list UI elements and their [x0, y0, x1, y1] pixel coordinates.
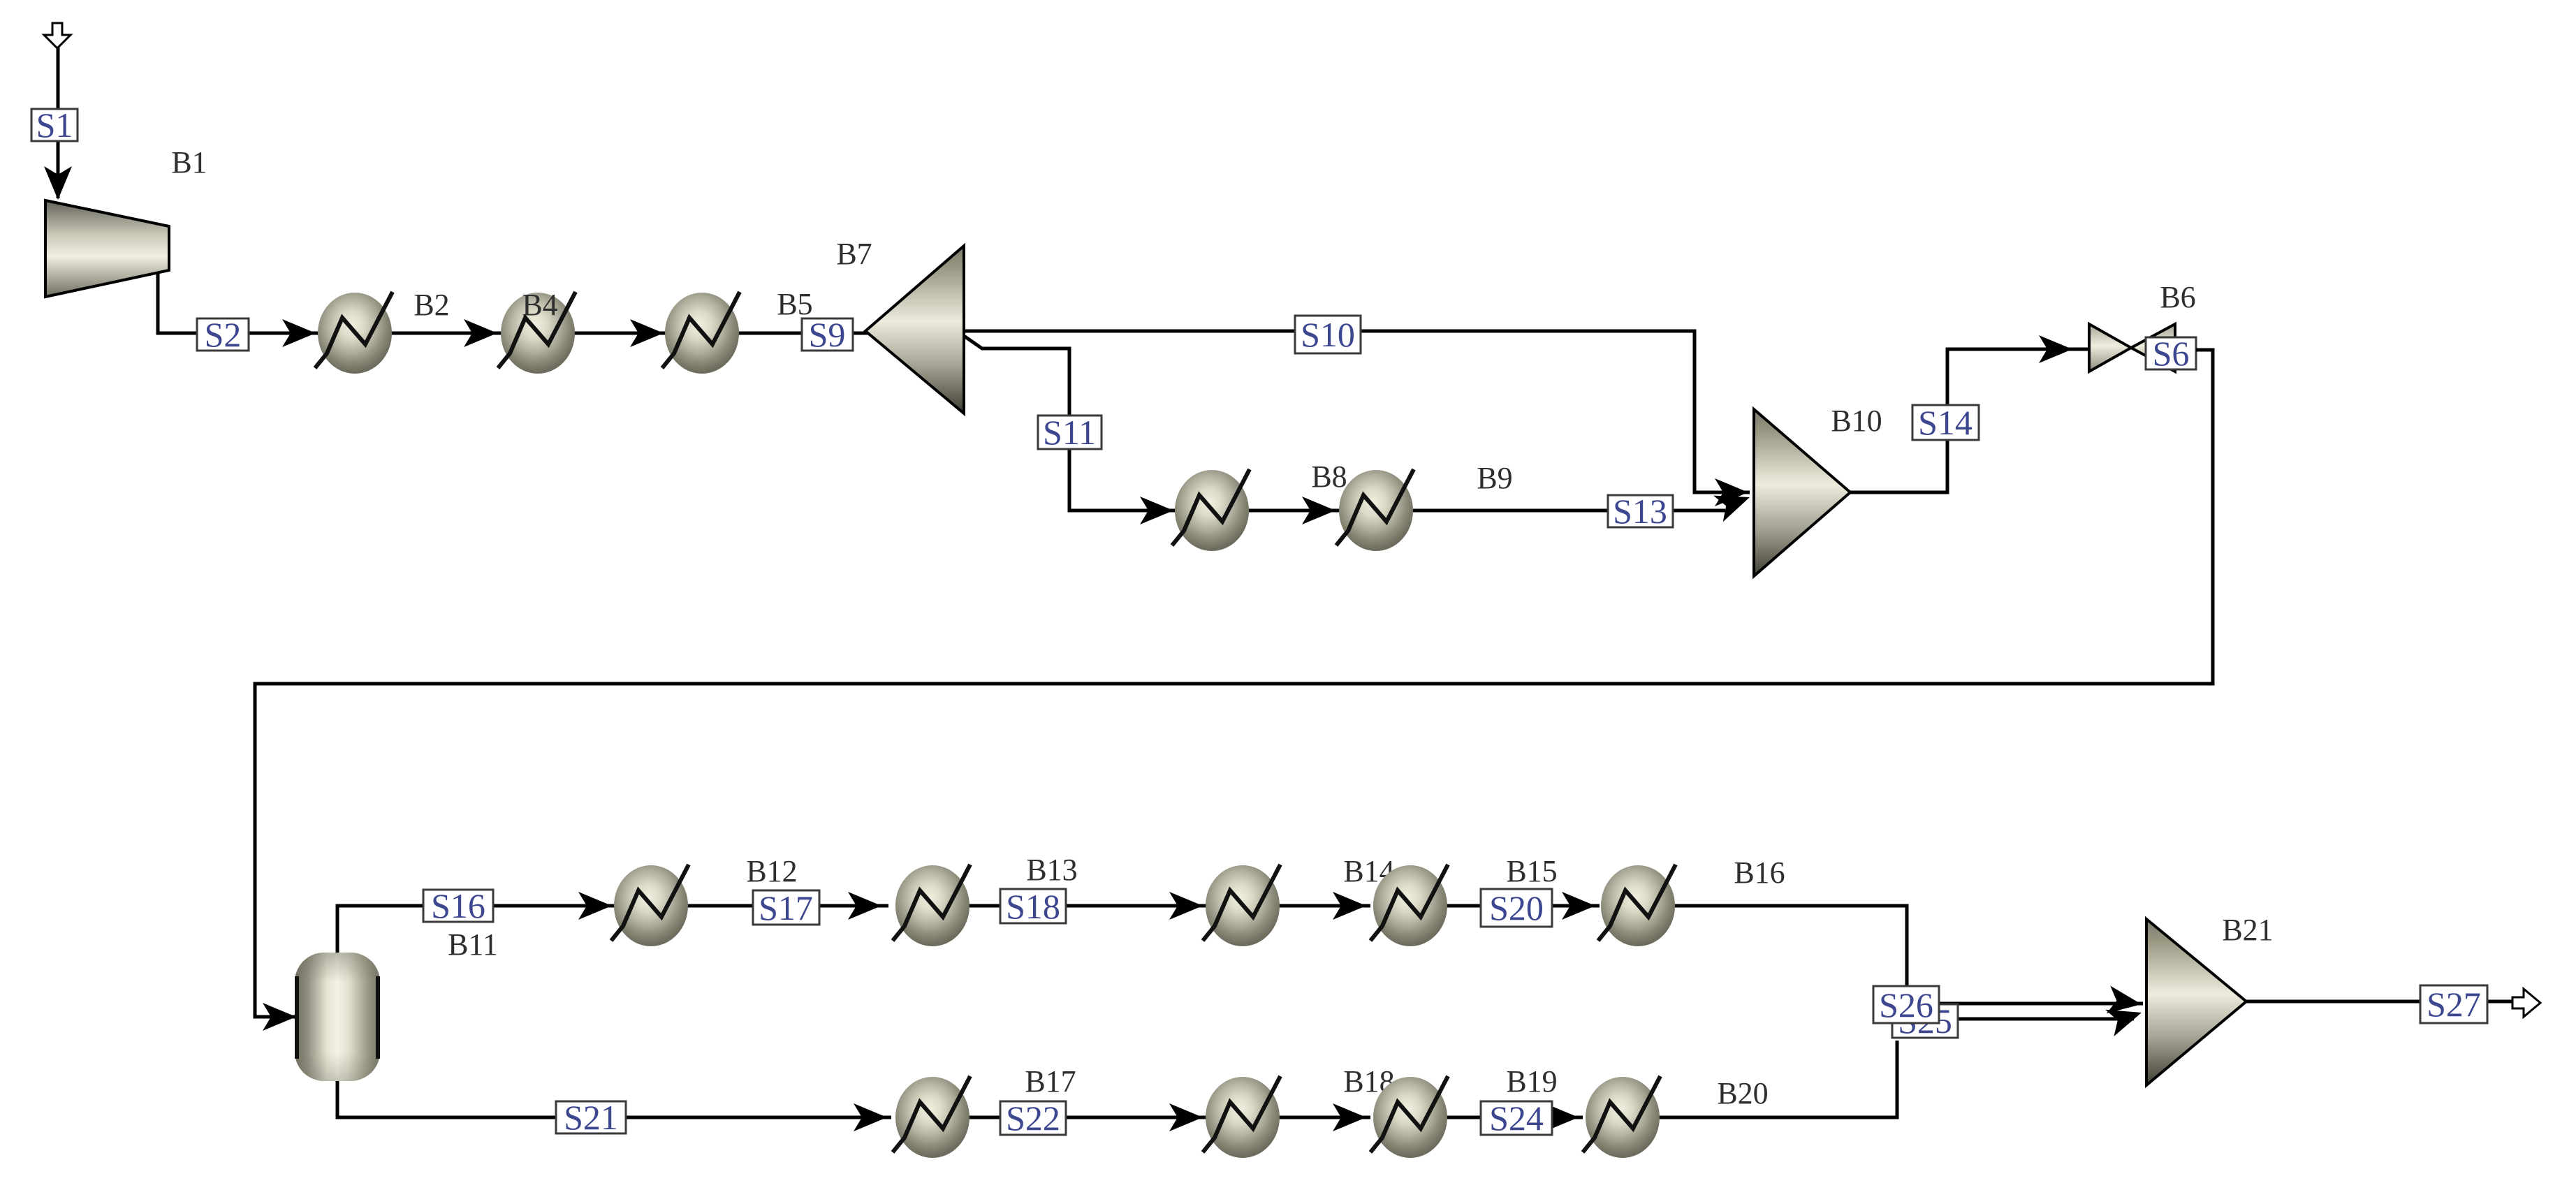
heater B13 — [893, 865, 970, 946]
arrowhead into B4 — [464, 319, 497, 347]
svg-text:B1: B1 — [171, 145, 207, 179]
wire S14 from B10 to valve B6 — [1850, 349, 2092, 492]
svg-text:B5: B5 — [777, 287, 812, 321]
wire S16 from B11 top to B12 — [337, 906, 617, 953]
stream label box S17 — [753, 890, 819, 925]
svg-text:B16: B16 — [1734, 855, 1785, 890]
stream label box S27 — [2420, 985, 2487, 1023]
mixer B21 — [2146, 919, 2246, 1085]
wire S22 from B17 to B18 — [969, 1116, 1209, 1119]
svg-text:B12: B12 — [746, 854, 797, 888]
wire S18 from B13 to B14 — [969, 904, 1209, 908]
arrowhead into B12 — [578, 892, 612, 920]
svg-text:S6: S6 — [2153, 334, 2190, 373]
svg-text:S10: S10 — [1301, 315, 1355, 354]
wire S9 from B5 to B7 — [736, 332, 868, 335]
svg-text:B4: B4 — [522, 288, 557, 322]
arrowhead into B11 — [263, 1003, 296, 1031]
wire S20 from B15 to B16 — [1447, 904, 1600, 908]
svg-text:S17: S17 — [759, 888, 813, 927]
arrowhead upper into B21 — [2107, 986, 2144, 1018]
svg-text:S21: S21 — [564, 1098, 618, 1137]
arrowhead into B19 — [1333, 1103, 1366, 1131]
stream label box S24 — [1481, 1101, 1552, 1135]
wire S1 feed line — [57, 43, 60, 198]
svg-text:B10: B10 — [1831, 404, 1882, 438]
wire S21 from B11 bottom to B17 — [337, 1081, 891, 1117]
arrowhead into B1 — [44, 166, 72, 200]
wire S6 long recycle to B11 — [255, 350, 2213, 1017]
stream label box S2 — [197, 318, 249, 351]
mixer B10 — [1754, 409, 1850, 576]
heater B19 — [1370, 1076, 1448, 1158]
arrowhead into B15 — [1333, 892, 1366, 920]
feed open arrow — [44, 23, 71, 48]
arrowhead into B9 — [1302, 497, 1335, 524]
svg-text:S9: S9 — [809, 315, 846, 354]
wire S24 from B19 to B20 — [1447, 1116, 1583, 1119]
svg-text:B17: B17 — [1025, 1064, 1076, 1099]
svg-text:S22: S22 — [1006, 1099, 1060, 1138]
arrowhead into B5 — [630, 319, 664, 347]
svg-text:B8: B8 — [1311, 460, 1347, 494]
wire S17 from B12 to B13 — [687, 904, 888, 908]
stream label box S18 — [1000, 889, 1066, 923]
arrowhead into B2 — [282, 319, 316, 347]
heater B2 — [315, 292, 393, 374]
heater B12 — [611, 865, 689, 946]
heater B5 — [662, 292, 740, 374]
heater B20 — [1583, 1076, 1660, 1158]
product open arrow — [2512, 989, 2540, 1017]
arrowhead into B14 — [1169, 892, 1203, 920]
svg-text:B19: B19 — [1506, 1064, 1557, 1099]
svg-text:S20: S20 — [1489, 888, 1544, 927]
svg-text:B20: B20 — [1717, 1076, 1768, 1110]
svg-text:B6: B6 — [2160, 280, 2195, 314]
stream label box S21 — [556, 1101, 626, 1133]
svg-text:B9: B9 — [1477, 461, 1512, 495]
heater B16 — [1598, 865, 1676, 946]
heater B9 — [1336, 469, 1414, 551]
arrowhead into B6 — [2039, 335, 2072, 363]
stream label box S26 — [1873, 986, 1939, 1023]
svg-text:B21: B21 — [2222, 913, 2273, 947]
svg-text:B13: B13 — [1026, 853, 1077, 887]
wire S25 from B20 up — [1659, 1041, 1897, 1117]
wire S13 from B9 to B10 — [1413, 509, 1725, 513]
svg-text:S16: S16 — [431, 886, 485, 925]
flash drum B11 — [295, 953, 380, 1081]
svg-text:S24: S24 — [1489, 1099, 1544, 1138]
svg-text:S2: S2 — [205, 315, 242, 354]
arrowhead S13 into B10 tilted — [1713, 484, 1755, 522]
wire B14 to B15 — [1279, 904, 1370, 908]
svg-text:B15: B15 — [1506, 854, 1557, 888]
arrowhead into B20 — [1545, 1103, 1579, 1131]
wire S11 from B7 down to B8 — [964, 336, 1179, 510]
wire S25 into B21 lower — [1949, 1018, 2134, 1021]
arrowhead into B18 — [1169, 1103, 1203, 1131]
wire S26 into B21 upper — [1935, 1002, 2143, 1006]
arrowhead lower into B21 — [2105, 999, 2146, 1036]
arrowhead into B13 — [848, 892, 881, 920]
svg-text:S27: S27 — [2427, 985, 2481, 1024]
svg-text:S26: S26 — [1879, 985, 1933, 1024]
svg-text:S14: S14 — [1918, 403, 1973, 442]
splitter B7 — [865, 246, 964, 413]
wire B8 to B9 — [1249, 509, 1341, 513]
wire B4 to B5 — [571, 332, 668, 335]
heater B8 — [1172, 469, 1250, 551]
compressor B1 — [45, 200, 169, 297]
valve B6 left cone — [2089, 324, 2131, 372]
stream label box S1 — [31, 109, 78, 141]
wire S2 from B1 to B2 — [158, 272, 321, 333]
arrowhead into B17 — [854, 1103, 887, 1131]
valve B6 right cone — [2131, 324, 2175, 372]
wire B18 to B19 — [1279, 1116, 1370, 1119]
svg-text:S18: S18 — [1006, 887, 1060, 926]
heater B18 — [1203, 1076, 1280, 1158]
stream label box S9 — [802, 318, 853, 351]
stream label box S14 — [1912, 405, 1979, 440]
svg-text:B7: B7 — [836, 237, 872, 271]
wire S10 from B7 to B10 — [964, 331, 1750, 492]
stream label box S16 — [423, 890, 493, 922]
svg-text:B11: B11 — [448, 927, 498, 962]
svg-text:B2: B2 — [414, 288, 449, 322]
stream label box S11 — [1038, 416, 1102, 449]
stream label box S10 — [1295, 316, 1361, 353]
heater B14 — [1203, 865, 1280, 946]
wire B2 to B4 — [388, 332, 504, 335]
arrowhead S10 into B10 — [1715, 478, 1748, 506]
stream label box S22 — [1000, 1101, 1066, 1135]
arrowhead into B8 — [1140, 497, 1173, 524]
svg-text:S11: S11 — [1043, 413, 1096, 452]
stream label box S25 — [1892, 1004, 1958, 1038]
heater B4 — [498, 292, 576, 374]
arrowhead into B16 — [1562, 892, 1595, 920]
svg-text:S1: S1 — [36, 105, 73, 145]
wire S27 from B21 to outlet — [2246, 1000, 2512, 1004]
stream label box S13 — [1608, 495, 1673, 527]
svg-text:S13: S13 — [1613, 492, 1667, 531]
heater B15 — [1370, 865, 1448, 946]
stream label box S6 — [2146, 337, 2196, 369]
stream label box S20 — [1481, 889, 1552, 927]
heater B17 — [893, 1076, 970, 1158]
wire S26 from B16 down — [1674, 906, 1907, 992]
